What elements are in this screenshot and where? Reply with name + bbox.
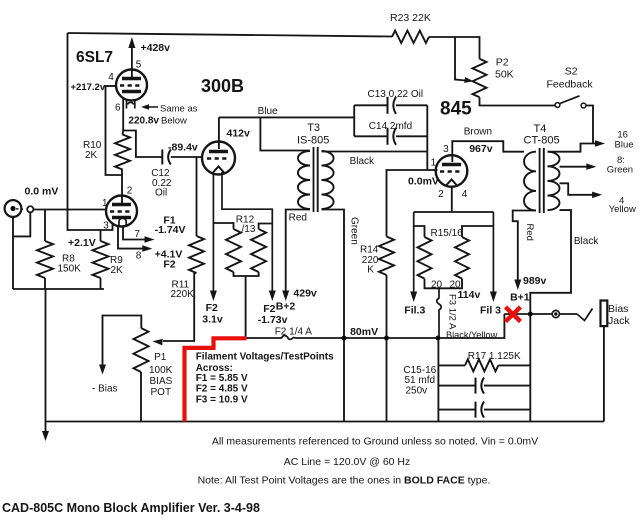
capacitor C16 — [475, 402, 477, 418]
tube 6SL7 lower triode U1b — [106, 196, 137, 227]
wire T4 secondary top to 16 tap — [548, 144, 598, 152]
svg-text:R23 22K: R23 22K — [390, 12, 431, 24]
resistor R8 150K — [37, 241, 53, 278]
svg-text:T4: T4 — [534, 123, 547, 135]
svg-text:2K: 2K — [85, 150, 98, 161]
wire R12 top bracket — [213, 223, 233, 229]
wire P2 wiper feed — [455, 37, 466, 81]
wire 300B plate riser to Blue — [218, 117, 220, 149]
filament stubs upper triode — [127, 100, 135, 109]
svg-text:Green: Green — [349, 217, 360, 245]
resistor R13 — [251, 229, 266, 272]
svg-text:K: K — [367, 265, 374, 276]
svg-text:Red: Red — [524, 224, 535, 241]
svg-text:C13 0.22 Oil: C13 0.22 Oil — [368, 89, 424, 100]
svg-text:IS-805: IS-805 — [297, 135, 329, 147]
bias terminal circle — [552, 310, 559, 317]
resistor R16 — [455, 237, 469, 279]
wire -Bias feed L — [103, 316, 142, 366]
svg-text:967v: 967v — [469, 143, 493, 155]
wire jack to ground bus — [603, 326, 605, 421]
ground bus bottom — [46, 421, 604, 423]
svg-text:114v: 114v — [458, 289, 481, 301]
tube 300B V2 — [202, 142, 235, 175]
wire P2 bottom to S2 — [480, 97, 556, 105]
wire T4 primary bottom B+1 — [513, 211, 536, 281]
svg-text:CT-805: CT-805 — [524, 135, 560, 147]
svg-text:Feedback: Feedback — [547, 79, 594, 91]
wire filament bus 80mV — [246, 337, 280, 339]
svg-text:150K: 150K — [58, 264, 82, 275]
wire C13 branch — [354, 104, 387, 106]
svg-text:+217.2v: +217.2v — [71, 82, 106, 93]
resistor R12 — [226, 229, 241, 272]
svg-text:CAD-805C Mono Block Amplifier: CAD-805C Mono Block Amplifier Ver. 3-4-9… — [2, 501, 260, 515]
svg-text:429v: 429v — [293, 287, 317, 299]
svg-text:6SL7: 6SL7 — [76, 49, 113, 66]
svg-text:F1 = 5.85 V: F1 = 5.85 V — [196, 373, 248, 384]
wire R17 rail — [438, 364, 465, 366]
wire pin7 F1 testpoint — [123, 227, 146, 240]
wire C15 rail — [438, 385, 475, 387]
svg-text:4: 4 — [108, 72, 114, 83]
wire R14 bottom — [386, 275, 388, 422]
wire T3 primary bottom Red B+2 — [286, 210, 310, 292]
svg-text:Black: Black — [574, 236, 599, 247]
wire C13/C14 left rail — [353, 105, 355, 136]
wire T3 secondary bottom Green — [322, 210, 345, 422]
svg-text:-1.74V: -1.74V — [155, 224, 186, 236]
svg-text:- Bias: - Bias — [92, 384, 118, 395]
svg-text:220K: 220K — [171, 289, 195, 300]
svg-text:Yellow: Yellow — [609, 204, 636, 215]
svg-text:B+2: B+2 — [276, 300, 296, 312]
svg-text:T3: T3 — [307, 122, 320, 134]
T3 secondary winding — [322, 151, 334, 209]
transformer T3 core — [313, 147, 315, 212]
T3 primary winding — [298, 151, 310, 209]
svg-text:Same as: Same as — [160, 104, 198, 115]
wire C12 to 300B grid — [171, 156, 203, 158]
svg-text:5: 5 — [136, 59, 142, 70]
wire 4 ohm tap — [560, 183, 595, 195]
wire R12/R13 bottom U — [234, 272, 259, 276]
svg-text:R15/16: R15/16 — [431, 228, 464, 239]
wire R14 top to 845 grid — [387, 170, 438, 237]
transformer T4 core — [539, 148, 541, 213]
potentiometer P2 50K — [473, 59, 487, 98]
wire plate to +428v arrow — [131, 47, 133, 79]
svg-text:220.8v: 220.8v — [128, 116, 159, 127]
svg-text:P2: P2 — [496, 57, 509, 69]
svg-text:51 mfd: 51 mfd — [405, 375, 436, 386]
wire R9 bottom — [100, 278, 102, 289]
svg-text:1: 1 — [431, 158, 437, 169]
svg-text:0.0mV: 0.0mV — [408, 176, 439, 188]
svg-text:R17 1.125K: R17 1.125K — [468, 351, 521, 362]
wire bracket to R16 — [462, 226, 493, 237]
wire T4 secondary bottom Black — [530, 210, 571, 421]
svg-text:Fil.3: Fil.3 — [404, 305, 425, 317]
resistor R15 — [418, 237, 432, 279]
T4 secondary winding — [548, 152, 560, 210]
resistor R17 1.125K — [465, 359, 498, 371]
svg-text:Bias: Bias — [608, 303, 628, 315]
jack contact check — [577, 309, 593, 321]
fuse F2 1/4A — [280, 335, 296, 339]
wire 845 filament lead — [451, 186, 453, 213]
svg-text:F2 = 4.85 V: F2 = 4.85 V — [196, 384, 248, 395]
svg-text:7: 7 — [134, 229, 140, 240]
cathode stub lower triode — [119, 218, 126, 226]
wire R8 top lead — [44, 210, 46, 242]
svg-text:4: 4 — [462, 189, 468, 200]
same-as-below arrow — [146, 106, 158, 108]
red X mark — [506, 307, 521, 322]
wire bracket to R15 — [414, 226, 425, 237]
svg-text:845: 845 — [440, 99, 472, 120]
svg-text:2: 2 — [127, 186, 133, 197]
svg-text:-1.73v: -1.73v — [258, 314, 288, 326]
wire C16 rail — [438, 409, 475, 411]
svg-text:6: 6 — [115, 103, 121, 114]
svg-text:Jack: Jack — [608, 315, 630, 327]
bias jack body — [601, 301, 608, 327]
svg-text:1: 1 — [102, 198, 108, 209]
wire to jack contact — [559, 313, 577, 315]
wire node to C12 — [123, 131, 161, 158]
input jack J1 — [5, 200, 22, 217]
wire C14 branch — [354, 135, 387, 137]
wire R10 bottom to lower plate — [121, 170, 123, 205]
svg-text:8: 8 — [136, 251, 142, 262]
wire jack ground down — [12, 236, 14, 289]
svg-text:All measurements referenced to: All measurements referenced to Ground un… — [212, 436, 538, 448]
capacitor C13 0.22 Oil — [387, 97, 389, 114]
svg-text:C14 2mfd: C14 2mfd — [369, 121, 412, 132]
junction R14/bus — [385, 336, 389, 340]
resistor R14 220K — [379, 237, 394, 276]
wire 8 ohm tap — [560, 166, 589, 168]
svg-text:P1: P1 — [154, 352, 167, 363]
svg-text:B+1: B+1 — [510, 292, 530, 304]
svg-text:S2: S2 — [565, 66, 578, 78]
fuse F3 1/2A — [437, 288, 442, 338]
svg-text:F3 = 10.9 V: F3 = 10.9 V — [196, 394, 248, 405]
wire feedback rail left side — [68, 33, 113, 230]
svg-text:R14: R14 — [360, 245, 379, 256]
wire Blue node — [219, 116, 354, 118]
switch S2 Feedback — [555, 103, 560, 108]
wire feedback rail top — [68, 33, 393, 37]
svg-text:Filament Voltages/TestPoints: Filament Voltages/TestPoints — [196, 352, 334, 363]
svg-text:3: 3 — [443, 144, 449, 155]
wire jack shell ground U — [13, 212, 30, 236]
wire R15/16 bottom U — [425, 279, 463, 289]
svg-text:2: 2 — [438, 189, 444, 200]
svg-text:250v: 250v — [406, 385, 428, 396]
wire R23 to P2 top — [429, 37, 480, 59]
resistor R23 22K — [392, 31, 429, 43]
wire R11 top lead from grid line — [196, 157, 198, 236]
svg-text:300B: 300B — [201, 76, 244, 96]
svg-text:BIAS: BIAS — [150, 376, 173, 387]
wire filament right leg / Fil 3 arrow — [492, 212, 494, 292]
svg-text:100K: 100K — [149, 365, 173, 376]
junction green/bus — [342, 336, 346, 340]
svg-text:412v: 412v — [227, 128, 251, 140]
svg-text:3.1v: 3.1v — [202, 314, 223, 326]
wire 845 plate to T4 Brown — [452, 141, 524, 162]
wire 300B filament right lead — [222, 172, 272, 291]
svg-text:Red: Red — [289, 213, 307, 224]
svg-text:989v: 989v — [523, 275, 547, 287]
svg-text:F2: F2 — [206, 302, 218, 314]
capacitor C12 0.22 Oil — [161, 150, 163, 165]
resistor R10 2K — [115, 135, 130, 170]
resistor R9 2K — [93, 241, 109, 278]
svg-text:-89.4v: -89.4v — [168, 142, 198, 154]
wire Black/Yellow — [438, 314, 505, 338]
svg-text:+2.1V: +2.1V — [68, 237, 96, 249]
svg-text:Fil 3: Fil 3 — [480, 305, 501, 317]
wire input line to grid pin1 — [33, 209, 106, 211]
wire T3 secondary top Black — [322, 151, 428, 153]
svg-text:+428v: +428v — [141, 42, 171, 54]
junction F3/bus — [436, 336, 440, 340]
svg-text:Black: Black — [350, 156, 375, 167]
svg-text:POT: POT — [151, 387, 172, 398]
wire P1 bottom to ground bus — [140, 372, 142, 422]
tube 845 V3 — [436, 155, 468, 187]
svg-text:AC Line = 120.0V @ 60 Hz: AC Line = 120.0V @ 60 Hz — [284, 456, 411, 468]
svg-text:80mV: 80mV — [350, 326, 378, 338]
wire R9 top lead — [100, 230, 102, 241]
wire ground rail y289 — [13, 288, 104, 290]
T4 primary winding — [524, 152, 536, 211]
tube 6SL7 upper triode U1a — [116, 70, 147, 101]
svg-text:Blue: Blue — [258, 106, 278, 117]
svg-text:Green: Green — [607, 164, 633, 175]
svg-text:Oil: Oil — [155, 188, 167, 199]
svg-text:50K: 50K — [495, 69, 514, 81]
wire S2 to 16ohm tap — [586, 106, 593, 144]
svg-text:F3 1/2 A: F3 1/2 A — [447, 294, 458, 330]
junction bias/secondary — [528, 312, 532, 316]
svg-text:Note: All Test Point Voltages: Note: All Test Point Voltages are the on… — [198, 475, 491, 487]
wire cathode pin6 down to R10 — [122, 98, 125, 135]
wire R11 bottom to P1 wiper — [163, 273, 197, 341]
wire C-network left rail — [437, 338, 439, 422]
wire ground down to bus — [45, 289, 47, 432]
wire R8 bottom — [44, 278, 46, 289]
wire R13 top bracket — [259, 224, 273, 230]
svg-text:2K: 2K — [111, 265, 124, 276]
svg-text:/13: /13 — [242, 224, 256, 235]
wire bias line — [504, 313, 552, 315]
wire pin8 F2 testpoint — [118, 227, 144, 249]
wire grid pin4 to lower plate node — [104, 85, 117, 87]
capacitor C15 — [475, 378, 477, 394]
wire C13/C14 right rail to grid node — [426, 105, 428, 170]
svg-text:F2 1/4 A: F2 1/4 A — [275, 327, 313, 338]
svg-text:F2: F2 — [163, 259, 175, 271]
svg-text:0.0 mV: 0.0 mV — [25, 186, 59, 198]
potentiometer P1 100K BIAS POT — [134, 328, 149, 372]
wire 300B filament left / F2 arrow — [212, 172, 214, 291]
wire T3 primary top from Blue — [260, 117, 310, 150]
capacitor C14 2mfd — [387, 128, 389, 145]
wire R12/13 junction down — [245, 276, 247, 338]
red filament return trace — [185, 338, 247, 421]
resistor R11 220K — [189, 236, 204, 273]
wire filament left leg / Fil.3 arrow — [413, 212, 415, 292]
wire 845 filament bar — [414, 211, 494, 213]
svg-text:Brown: Brown — [464, 127, 492, 138]
svg-text:Black/Yellow: Black/Yellow — [446, 330, 498, 340]
svg-text:Below: Below — [161, 116, 187, 127]
svg-text:3: 3 — [103, 221, 109, 232]
svg-text:Blue: Blue — [615, 140, 634, 151]
